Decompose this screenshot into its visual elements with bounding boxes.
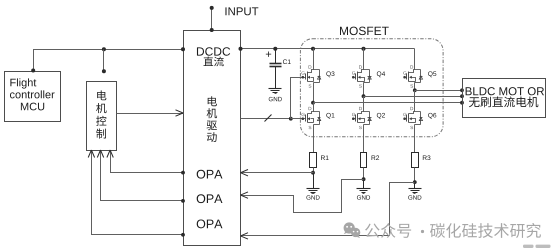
wire V+ rail bbox=[241, 48, 415, 50]
node OPA3 out at box bbox=[181, 233, 185, 237]
transistor Q3 bbox=[302, 76, 305, 79]
label Flight controller MCU bbox=[10, 78, 36, 88]
wire Q2 source to R2 bbox=[363, 127, 365, 153]
wire Q1 drain from phase A bbox=[313, 103, 315, 110]
wire R2 sense to OPA2 bbox=[241, 180, 364, 213]
watermark small note bbox=[523, 245, 534, 248]
block BLDC motor bbox=[463, 79, 546, 118]
label BLDC MOT OR bbox=[466, 87, 544, 95]
label 直流 bbox=[203, 57, 223, 67]
node bus at driver box bbox=[181, 47, 185, 51]
resistor R2 bbox=[361, 153, 367, 168]
wire control to driver bbox=[117, 113, 184, 115]
transistor Q6 bbox=[403, 117, 406, 120]
arrow OPA3 into control bbox=[88, 150, 94, 158]
wire R2 to node bbox=[363, 168, 365, 180]
arrow into OPA3 bbox=[241, 233, 249, 239]
wire Q5 source to phase C bbox=[414, 85, 416, 91]
node rail Q3 tap bbox=[311, 47, 315, 51]
label R2 bbox=[372, 155, 380, 160]
wire Q6 source to R3 bbox=[414, 127, 416, 153]
arrow OPA2 into control bbox=[97, 150, 103, 158]
wire OPA1 out bbox=[111, 151, 184, 173]
wire Q5 drain from rail corner bbox=[414, 49, 416, 69]
wire R3 to node bbox=[414, 168, 416, 183]
wire phase A to motor bbox=[314, 102, 463, 104]
node phase B at motor bbox=[460, 94, 464, 98]
capacitor C1 bbox=[275, 49, 277, 64]
ground under R2 bbox=[363, 180, 365, 189]
label OPA (2) bbox=[197, 194, 223, 203]
node R2 sense bbox=[362, 177, 366, 181]
wire INPUT drop bbox=[211, 8, 213, 31]
block driver IC (DCDC/电机驱动/OPA) bbox=[184, 31, 241, 246]
label INPUT bbox=[225, 7, 258, 15]
node OPA2 out at box bbox=[181, 199, 185, 203]
wire phase B to motor bbox=[364, 96, 463, 98]
label DCDC bbox=[197, 47, 230, 56]
label OPA (3) bbox=[197, 219, 223, 228]
wire Q3 drain from rail bbox=[313, 49, 315, 69]
node rail C1 tap bbox=[273, 47, 277, 51]
node phase A bbox=[311, 101, 315, 105]
resistor R1 bbox=[310, 153, 317, 168]
wire OPA3 out bbox=[92, 151, 184, 235]
label R1 bbox=[321, 155, 329, 160]
node bus junction bbox=[102, 47, 106, 51]
transistor Q5 bbox=[403, 76, 406, 79]
block Flight controller MCU bbox=[5, 72, 61, 122]
wire gate bundle bbox=[241, 118, 291, 120]
wire gate bus up to Q3 bbox=[291, 78, 303, 119]
label + polarity bbox=[266, 51, 271, 56]
node OPA1 out at box bbox=[181, 171, 185, 175]
label 电机驱动 (vertical) bbox=[207, 96, 217, 142]
resistor R3 bbox=[412, 153, 419, 168]
wire Q4 source to phase B bbox=[363, 85, 365, 97]
ground under C1 bbox=[275, 67, 277, 89]
ground under R3 bbox=[414, 183, 416, 189]
node R1 sense bbox=[311, 171, 315, 175]
node INPUT at box bbox=[210, 28, 214, 32]
label R3 bbox=[423, 155, 431, 160]
node gate bus junction bbox=[289, 117, 293, 121]
watermark text bbox=[365, 223, 411, 238]
wire R3 sense to OPA3 bbox=[241, 183, 415, 236]
node rail Q4 tap bbox=[362, 47, 366, 51]
enclosure MOSFET bridge (dashed) bbox=[300, 39, 443, 137]
wire Q1 source to R1 bbox=[313, 127, 315, 153]
wire Q6 drain from phase C bbox=[414, 91, 416, 110]
wire R1 to node bbox=[313, 168, 315, 173]
wire gate bus to Q1 bbox=[291, 118, 303, 120]
wire R1 sense to OPA1 bbox=[241, 172, 314, 174]
transistor Q4 bbox=[352, 76, 355, 79]
transistor Q1 bbox=[302, 117, 305, 120]
label 电机控制 (vertical) bbox=[96, 90, 106, 138]
wire stub to motor-control bbox=[103, 50, 105, 72]
label MOSFET bbox=[340, 27, 389, 35]
transistor Q2 bbox=[352, 117, 355, 120]
slash bundle mark bbox=[265, 115, 272, 122]
label C1 bbox=[283, 59, 291, 64]
node phase C at motor bbox=[460, 88, 464, 92]
node phase A at motor bbox=[460, 101, 464, 105]
label 无刷直流电机 bbox=[469, 96, 538, 107]
wire OPA2 out bbox=[101, 151, 184, 201]
node INPUT top terminal bbox=[210, 6, 214, 10]
node rail at driver box bbox=[239, 47, 243, 51]
node phase B bbox=[362, 94, 366, 98]
label OPA (1) bbox=[197, 170, 223, 179]
node phase C bbox=[413, 88, 417, 92]
watermark logo bbox=[344, 222, 361, 238]
arrow into driver bbox=[176, 110, 184, 116]
node bus at MCU top bbox=[31, 69, 35, 73]
wire Q2 drain from phase B bbox=[363, 97, 365, 110]
wire Q4 drain from rail bbox=[363, 49, 365, 69]
node R3 sense bbox=[413, 180, 417, 184]
node stub end bbox=[102, 69, 106, 73]
arrow into OPA2 bbox=[241, 192, 249, 198]
ground under R1 bbox=[313, 173, 315, 189]
block motor-control (电机控制) bbox=[87, 82, 117, 151]
arrow OPA1 into control bbox=[107, 150, 113, 158]
arrow into OPA1 bbox=[241, 170, 249, 176]
wire phase C to motor bbox=[415, 90, 463, 92]
wire Q3 source to phase A bbox=[313, 85, 315, 103]
wire supply bus bbox=[34, 50, 184, 72]
